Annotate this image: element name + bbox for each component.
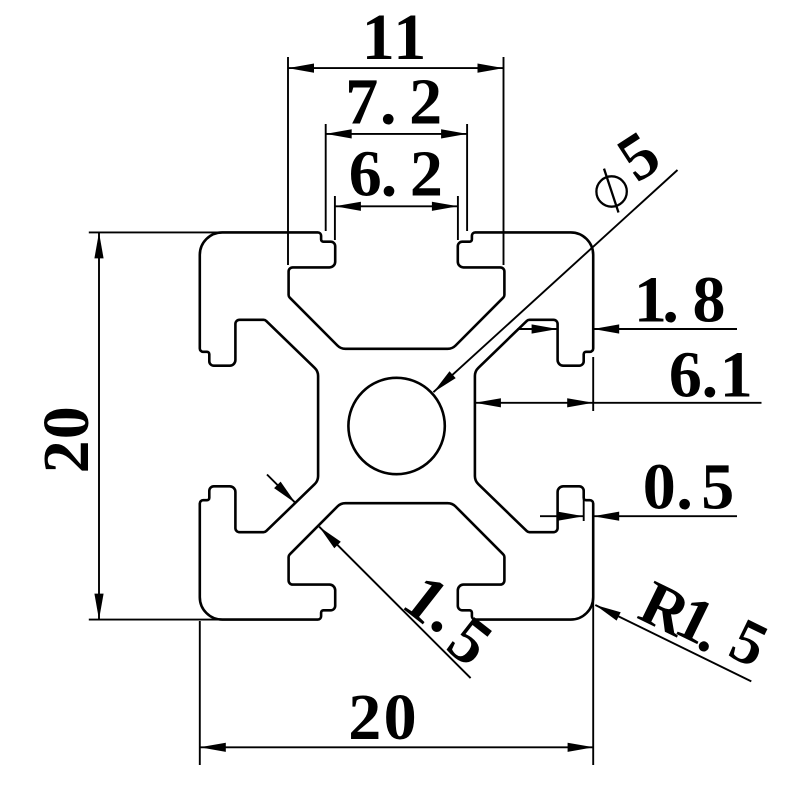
- svg-text:0: 0: [30, 406, 103, 439]
- svg-text:2: 2: [409, 66, 442, 139]
- svg-text:5: 5: [701, 451, 734, 524]
- svg-text:8: 8: [693, 263, 726, 336]
- svg-text:0: 0: [643, 451, 676, 524]
- svg-text:.: .: [702, 339, 719, 412]
- svg-text:.: .: [676, 451, 693, 524]
- svg-text:1: 1: [720, 339, 753, 412]
- svg-text:6: 6: [349, 137, 382, 210]
- svg-text:7: 7: [345, 66, 378, 139]
- svg-text:1: 1: [362, 1, 395, 74]
- svg-text:1: 1: [393, 1, 426, 74]
- svg-text:0: 0: [384, 681, 417, 754]
- svg-text:2: 2: [410, 137, 443, 210]
- svg-text:2: 2: [30, 440, 103, 473]
- svg-text:2: 2: [348, 681, 381, 754]
- svg-text:.: .: [662, 263, 679, 336]
- svg-text:.: .: [380, 66, 397, 139]
- svg-text:.: .: [381, 137, 398, 210]
- svg-text:6: 6: [669, 339, 702, 412]
